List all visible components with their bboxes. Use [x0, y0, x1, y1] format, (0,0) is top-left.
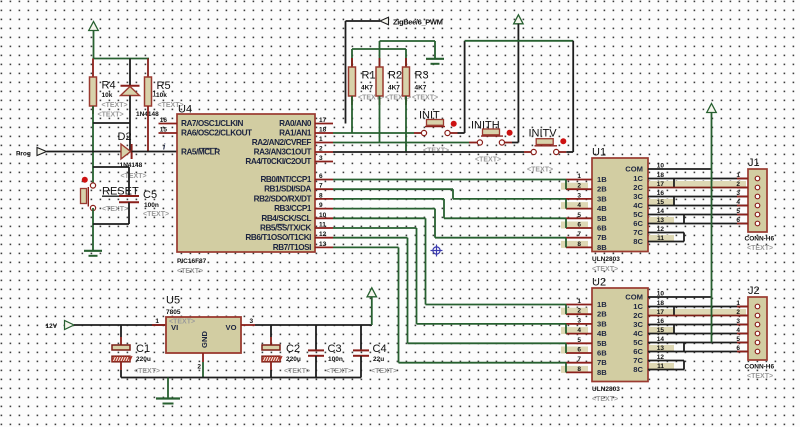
- U4 pin 16 RA7/OSC1/CLKIN: [159, 117, 244, 128]
- svg-text:<TEXT>: <TEXT>: [134, 368, 160, 375]
- capacitor C1 (220u): [112, 325, 160, 378]
- wire 12V to U5 VI: [74, 324, 166, 326]
- wire U2 3C-4C tie: [673, 325, 675, 334]
- IC U1 ULN2803 body: [592, 147, 648, 274]
- svg-text:220u: 220u: [286, 356, 301, 363]
- svg-text:8C: 8C: [633, 365, 643, 374]
- U4 pin 6 RB0/INT/CCP1: [260, 173, 333, 184]
- wire U1 COM to +V rail: [648, 168, 712, 170]
- wire U2 7C stub: [648, 360, 684, 362]
- power symbol +5V (top middle): [514, 15, 524, 143]
- svg-text:RB1/SDI/SDA: RB1/SDI/SDA: [264, 185, 311, 194]
- U4 pin 8 RB2/SDO/RX/DT: [254, 192, 333, 203]
- IC U4 PIC16F87 body: [177, 104, 315, 276]
- svg-text:2: 2: [736, 309, 740, 316]
- ground symbol (left): [84, 251, 102, 256]
- U2 pin 16 (3C): [633, 318, 664, 329]
- svg-text:<TEXT>: <TEXT>: [102, 102, 128, 109]
- wire U1 input pair 3B-4B tie: [565, 199, 567, 209]
- J2 pin 4: [736, 327, 759, 336]
- U1 pin 13 (6C): [633, 217, 674, 228]
- U1 pin 5 (5B): [566, 212, 607, 223]
- svg-text:RA3/AN3C1OUT: RA3/AN3C1OUT: [254, 148, 312, 157]
- wire U2 6C to J2 pin 6: [648, 351, 748, 353]
- svg-text:R1: R1: [362, 70, 376, 82]
- svg-text:10k: 10k: [156, 92, 167, 99]
- svg-text:<TEXT>: <TEXT>: [98, 112, 124, 119]
- wire R3 bottom to INITV row: [405, 96, 407, 152]
- svg-text:<TEXT>: <TEXT>: [121, 173, 147, 180]
- wire U1 3C-4C tie: [673, 197, 675, 206]
- wire U2 input pair 3B-4B tie: [565, 324, 567, 334]
- connector J1 CONN-H6 body: [745, 157, 775, 252]
- svg-text:2: 2: [577, 308, 581, 315]
- svg-text:<TEXT>: <TEXT>: [284, 368, 310, 375]
- svg-text:5C: 5C: [633, 210, 643, 219]
- svg-text:RB7/T1OSI: RB7/T1OSI: [273, 243, 311, 252]
- wire U2 input pair 7B-8B tie: [565, 363, 567, 373]
- svg-text:12V: 12V: [46, 323, 58, 330]
- capacitor C2 (220u): [262, 325, 310, 378]
- svg-text:RB0/INT/CCP1: RB0/INT/CCP1: [260, 175, 311, 184]
- svg-text:<TEXT>: <TEXT>: [592, 266, 618, 273]
- voltage regulator U5 7805: [155, 295, 253, 371]
- resistor R3 (4K7): [403, 49, 439, 105]
- U1 pin 14 (5C): [633, 208, 664, 219]
- svg-text:100n: 100n: [144, 202, 159, 209]
- U1 pin 16 (3C): [633, 190, 664, 201]
- svg-text:RA2/AN2/CVREF: RA2/AN2/CVREF: [252, 138, 312, 147]
- svg-text:ZigBee/6_PWM: ZigBee/6_PWM: [393, 18, 443, 27]
- svg-text:8B: 8B: [597, 368, 607, 377]
- svg-text:8: 8: [577, 241, 581, 248]
- pushbutton RESET: [81, 177, 140, 213]
- U1 pin 17 (2C): [633, 181, 674, 192]
- svg-text:CONN-H6: CONN-H6: [745, 236, 775, 243]
- svg-text:RA6/OSC2/CLKOUT: RA6/OSC2/CLKOUT: [181, 129, 252, 138]
- wire U2 COM to +V rail: [648, 296, 712, 298]
- svg-text:6: 6: [577, 222, 581, 229]
- pushbutton INITV: [524, 128, 566, 174]
- diode D1 (vertical, 1N4148): [121, 59, 160, 152]
- wire U1 1C-2C tie: [673, 179, 675, 188]
- svg-text:C3: C3: [328, 343, 342, 355]
- svg-text:3: 3: [736, 318, 740, 325]
- svg-text:3B: 3B: [597, 194, 607, 203]
- wire RB1 to U1 3B: [333, 189, 566, 199]
- wire U4 RA1 (18) to INIT: [333, 132, 414, 134]
- J1 pin 1: [736, 172, 759, 181]
- svg-text:7: 7: [319, 183, 323, 190]
- wire R4 bottom column: [92, 106, 94, 186]
- J1 pin 6: [736, 217, 759, 226]
- wire U2 7C-8C tie: [683, 361, 685, 370]
- wire C5 bottom rail: [93, 223, 129, 225]
- svg-text:<TEXT>: <TEXT>: [371, 368, 397, 375]
- svg-text:3B: 3B: [597, 319, 607, 328]
- wire U1 4C to J1 pin 4: [648, 205, 748, 207]
- U1 pin 12 (7C): [633, 226, 664, 237]
- svg-text:6: 6: [577, 347, 581, 354]
- J1 pin 3: [736, 190, 759, 199]
- svg-text:<TEXT>: <TEXT>: [326, 368, 352, 375]
- svg-text:ULN2803: ULN2803: [592, 386, 620, 393]
- svg-text:220u: 220u: [136, 356, 151, 363]
- U2 pin 3 (3B): [566, 317, 607, 328]
- svg-text:INITV: INITV: [529, 128, 558, 140]
- ground symbol (top middle): [426, 41, 444, 64]
- U1 pin 2 (2B): [561, 183, 607, 194]
- svg-text:<TEXT>: <TEXT>: [747, 373, 773, 380]
- capacitor C5 (100n): [119, 167, 169, 224]
- wire U2 1C-2C tie: [673, 307, 675, 316]
- power symbol +5V (top-left): [89, 22, 99, 59]
- wire U1 input pair 1B-2B tie: [565, 180, 567, 190]
- svg-text:ULN2803: ULN2803: [592, 256, 620, 263]
- wire U2 input pair 1B-2B tie: [565, 305, 567, 315]
- svg-text:3: 3: [319, 155, 323, 162]
- svg-text:5C: 5C: [633, 338, 643, 347]
- pushbutton INIT: [414, 110, 458, 155]
- svg-text:4: 4: [736, 327, 740, 334]
- wire U2 4C to J2 pin 4: [648, 333, 748, 335]
- 12V input terminal: [46, 321, 75, 331]
- connector J2 CONN-H6 body: [745, 285, 775, 380]
- U2 pin 4 (4B): [561, 327, 607, 338]
- svg-text:3C: 3C: [633, 320, 643, 329]
- svg-text:U4: U4: [178, 104, 192, 116]
- svg-text:5: 5: [736, 208, 740, 215]
- U4 pin 18 RA1/AN1: [279, 127, 333, 138]
- wire U1 7C stub: [648, 232, 684, 234]
- svg-text:15: 15: [160, 127, 168, 134]
- wire INITV to +5V vertical: [566, 41, 573, 152]
- svg-text:1: 1: [155, 318, 159, 325]
- svg-text:100n: 100n: [328, 356, 343, 363]
- U4 pin 9 RB3/CCP1: [274, 202, 333, 213]
- svg-text:RB6/T1OSO/T1CKI: RB6/T1OSO/T1CKI: [245, 233, 311, 242]
- wire +5V rail for switches: [465, 40, 574, 42]
- svg-text:RB4/SCK/SCL: RB4/SCK/SCL: [261, 214, 311, 223]
- svg-text:RA4/T0CKI/C2OUT: RA4/T0CKI/C2OUT: [245, 157, 311, 166]
- svg-text:10k: 10k: [102, 92, 113, 99]
- svg-text:1C: 1C: [633, 302, 643, 311]
- wire U2 2C to J2 pin 2: [648, 309, 748, 316]
- wire U1 5C to J1 pin 5: [648, 214, 748, 216]
- U2 pin 18 (1C): [633, 300, 664, 311]
- capacitor C3 (100n): [308, 325, 352, 378]
- svg-text:5: 5: [736, 336, 740, 343]
- svg-text:9: 9: [319, 202, 323, 209]
- wire U1 input pair 7B-8B tie: [565, 238, 567, 248]
- svg-text:RB3/CCP1: RB3/CCP1: [274, 204, 312, 213]
- wire top rail (R4/D1/R5 tops): [93, 58, 150, 60]
- svg-text:7C: 7C: [633, 228, 643, 237]
- U1 pin 3 (3B): [566, 192, 607, 203]
- U2 pin 11 (8C): [633, 363, 674, 374]
- svg-text:<TEXT>: <TEXT>: [747, 245, 773, 252]
- svg-text:2B: 2B: [597, 185, 607, 194]
- svg-text:J2: J2: [748, 285, 760, 297]
- svg-text:6: 6: [736, 345, 740, 352]
- svg-text:4: 4: [577, 202, 581, 209]
- wire U5 GND pin: [202, 353, 204, 378]
- wire C5 top rail: [93, 166, 129, 168]
- J2 pin 3: [736, 318, 759, 327]
- wire RB3 to U1 7B: [333, 209, 566, 238]
- svg-text:1N4148: 1N4148: [120, 162, 143, 169]
- svg-text:8: 8: [319, 192, 323, 199]
- svg-text:<TEXT>: <TEXT>: [143, 211, 169, 218]
- svg-text:VO: VO: [226, 323, 237, 332]
- svg-text:4: 4: [577, 327, 581, 334]
- wire U1 2C to J1 pin 2: [648, 181, 748, 188]
- wire U1 6C to J1 pin 6: [648, 223, 748, 225]
- svg-text:1: 1: [577, 173, 581, 180]
- svg-text:3: 3: [250, 318, 254, 325]
- U2 pin 2 (2B): [561, 308, 607, 319]
- U1 pin 18 (1C): [633, 172, 664, 183]
- svg-text:4K7: 4K7: [388, 85, 400, 92]
- wire U5 VO +5V rail: [241, 324, 372, 326]
- U4 pin 2 RA3/AN3C1OUT: [254, 146, 333, 157]
- svg-text:7C: 7C: [633, 356, 643, 365]
- svg-text:COM: COM: [625, 165, 643, 174]
- J2 pin 1: [736, 300, 759, 309]
- svg-text:1B: 1B: [597, 175, 607, 184]
- svg-text:U1: U1: [592, 147, 606, 159]
- wire U4 RA3 (2) to INITV: [333, 151, 524, 153]
- U2 pin 5 (5B): [566, 337, 607, 348]
- wire U2 1C to J2 pin 1: [648, 306, 748, 308]
- svg-text:J1: J1: [748, 157, 760, 169]
- U1 pin 6 (6B): [561, 222, 607, 233]
- svg-text:RA7/OSC1/CLKIN: RA7/OSC1/CLKIN: [181, 119, 243, 128]
- wire U2 3C to J2 pin 3: [648, 324, 748, 326]
- diode D2 (1N4148): [118, 131, 147, 180]
- J2 pin 5: [736, 336, 759, 345]
- wire U1 input pair 5B-6B tie: [565, 218, 567, 228]
- U2 pin 15 (4C): [633, 327, 674, 338]
- svg-text:R3: R3: [415, 70, 429, 82]
- wire RB7 to U2 7B: [333, 247, 566, 362]
- U1 pin 1 (1B): [566, 173, 607, 184]
- svg-text:8B: 8B: [597, 243, 607, 252]
- U2 pin 8 (8B): [561, 366, 607, 377]
- svg-text:1: 1: [736, 172, 740, 179]
- svg-text:7805: 7805: [166, 309, 181, 316]
- svg-text:1C: 1C: [633, 174, 643, 183]
- svg-text:7B: 7B: [597, 233, 607, 242]
- wire U2 input pair 5B-6B tie: [565, 343, 567, 353]
- U4 pin 3 RA4/T0CKI/C2OUT: [245, 155, 333, 166]
- origin marker crosshair: [431, 245, 443, 257]
- svg-text:R4: R4: [102, 80, 116, 92]
- svg-text:D2: D2: [118, 131, 132, 143]
- U4 pin 10 RB4/SCK/SCL: [261, 212, 333, 223]
- svg-text:4B: 4B: [597, 204, 607, 213]
- svg-text:<TEXT>: <TEXT>: [102, 206, 128, 213]
- svg-text:6B: 6B: [597, 224, 607, 233]
- svg-text:13: 13: [319, 241, 327, 248]
- wire D2 cathode to U4 RA5/MCLR: [132, 151, 177, 153]
- U4 pin 7 RB1/SDI/SDA: [264, 183, 333, 194]
- IC U2 ULN2803 body: [592, 277, 648, 404]
- U2 pin 14 (5C): [633, 336, 664, 347]
- svg-text:<TEXT>: <TEXT>: [527, 167, 553, 174]
- wire rail R1-R3 tops: [352, 48, 406, 50]
- svg-text:11: 11: [319, 222, 326, 229]
- U1 pin 15 (4C): [633, 199, 674, 210]
- U2 pin 10 (COM): [625, 291, 664, 302]
- svg-text:RB2/SDO/RX/DT: RB2/SDO/RX/DT: [254, 194, 312, 203]
- wire U4 RA2 (1) to INITH: [333, 142, 469, 144]
- wire U1 5C-6C tie: [683, 215, 685, 224]
- svg-text:3: 3: [736, 190, 740, 197]
- svg-text:RA1/AN1: RA1/AN1: [279, 129, 312, 138]
- svg-text:1: 1: [577, 298, 581, 305]
- resistor R1 (4K7): [349, 49, 385, 105]
- wire Prog to D2 anode: [47, 151, 122, 153]
- wire U1 8C stub: [648, 241, 684, 243]
- svg-text:6: 6: [736, 217, 740, 224]
- svg-text:<TEXT>: <TEXT>: [177, 268, 203, 275]
- U1 pin 7 (7B): [566, 231, 607, 242]
- svg-text:3: 3: [577, 192, 581, 199]
- svg-text:GND: GND: [200, 331, 209, 348]
- wire RESET bottom to ground rail: [92, 208, 94, 251]
- U2 pin 17 (2C): [633, 309, 674, 320]
- svg-text:8: 8: [577, 366, 581, 373]
- wire U1 3C to J1 pin 3: [648, 196, 748, 198]
- U2 pin 13 (6C): [633, 345, 674, 356]
- svg-text:16: 16: [160, 117, 168, 124]
- svg-text:COM: COM: [625, 293, 643, 302]
- svg-text:1: 1: [736, 300, 740, 307]
- svg-text:1B: 1B: [597, 300, 607, 309]
- U4 pin 1 RA2/AN2/CVREF: [252, 136, 333, 147]
- U2 pin 7 (7B): [566, 356, 607, 367]
- svg-text:R5: R5: [157, 80, 171, 92]
- svg-text:4C: 4C: [633, 329, 643, 338]
- wire U1 7C-8C tie: [683, 233, 685, 242]
- svg-text:4: 4: [736, 199, 740, 206]
- U4 pin 11 RB5/SS/TX/CK: [260, 222, 333, 233]
- U1 pin 4 (4B): [561, 202, 607, 213]
- svg-text:<TEXT>: <TEXT>: [475, 157, 501, 164]
- resistor R4: [90, 59, 128, 119]
- svg-text:C2: C2: [286, 343, 300, 355]
- U2 pin 1 (1B): [566, 298, 607, 309]
- U2 pin 12 (7C): [633, 354, 664, 365]
- U4 pin 12 RB6/T1OSO/T1CKI: [245, 231, 333, 242]
- svg-text:8C: 8C: [633, 237, 643, 246]
- svg-text:6B: 6B: [597, 349, 607, 358]
- svg-text:2B: 2B: [597, 310, 607, 319]
- capacitor C4 (22u): [353, 325, 397, 378]
- U1 pin 10 (COM): [625, 163, 664, 174]
- wire U2 5C-6C tie: [683, 343, 685, 352]
- svg-text:18: 18: [319, 127, 327, 134]
- svg-text:CONN-H6: CONN-H6: [745, 364, 775, 371]
- J1 pin 4: [736, 199, 759, 208]
- svg-text:2: 2: [319, 146, 323, 153]
- svg-text:2C: 2C: [633, 311, 643, 320]
- svg-text:C1: C1: [136, 343, 150, 355]
- U4 pin 4 RA5/MCLR: [163, 143, 220, 157]
- ground symbol (bottom): [156, 378, 180, 404]
- power symbol +V (right): [707, 104, 717, 343]
- svg-text:RB5/SS/TX/CK: RB5/SS/TX/CK: [260, 224, 312, 233]
- wire RB5 to U2 3B: [333, 228, 566, 324]
- svg-text:4K7: 4K7: [361, 85, 373, 92]
- U4 pin 17 RA0/AN0: [279, 117, 333, 128]
- J2 pin 2: [736, 309, 759, 318]
- svg-text:PIC16F87: PIC16F87: [177, 258, 207, 265]
- J2 pin 6: [736, 345, 759, 354]
- U2 pin 6 (6B): [561, 347, 607, 358]
- power symbol +5V (above U5 output): [367, 288, 377, 325]
- svg-text:5B: 5B: [597, 339, 607, 348]
- wire U2 8C stub: [648, 369, 684, 371]
- svg-text:RA0/AN0: RA0/AN0: [279, 119, 312, 128]
- svg-text:10: 10: [319, 212, 327, 219]
- svg-text:6: 6: [319, 173, 323, 180]
- svg-text:4B: 4B: [597, 329, 607, 338]
- svg-text:C5: C5: [143, 189, 157, 201]
- svg-text:7: 7: [577, 231, 581, 238]
- svg-text:<TEXT>: <TEXT>: [592, 396, 618, 403]
- Prog input terminal: [16, 148, 47, 158]
- svg-text:3: 3: [577, 317, 581, 324]
- svg-text:2C: 2C: [633, 183, 643, 192]
- svg-text:4K7: 4K7: [415, 85, 427, 92]
- wire U2 5C to J2 pin 5: [648, 342, 748, 344]
- svg-text:Prog: Prog: [16, 151, 31, 158]
- svg-text:2: 2: [736, 181, 740, 188]
- U1 pin 11 (8C): [633, 235, 674, 246]
- svg-text:<TEXT>: <TEXT>: [423, 148, 449, 155]
- svg-text:C4: C4: [373, 343, 387, 355]
- svg-text:2: 2: [577, 183, 581, 190]
- wire RB4 to U2 1B: [333, 218, 566, 304]
- wire U1 1C to J1 pin 1: [648, 178, 748, 180]
- svg-text:RA5/MCLR: RA5/MCLR: [181, 148, 220, 157]
- resistor R5: [145, 59, 184, 152]
- svg-text:12: 12: [319, 231, 327, 238]
- svg-text:U2: U2: [592, 277, 606, 289]
- wire R2 bottom to INITH row: [379, 96, 381, 143]
- svg-text:4C: 4C: [633, 201, 643, 210]
- svg-text:VI: VI: [171, 323, 178, 332]
- svg-text:6C: 6C: [633, 219, 643, 228]
- wire ground rail (bottom): [121, 377, 361, 379]
- svg-text:6C: 6C: [633, 347, 643, 356]
- wire rail R2 top to ground: [380, 40, 436, 42]
- U4 pin 15 RA6/OSC2/CLKOUT: [159, 127, 253, 138]
- J1 pin 5: [736, 208, 759, 217]
- wire INITH to +5V vertical: [512, 142, 518, 144]
- pushbutton INITH: [469, 120, 513, 164]
- svg-text:5: 5: [577, 212, 581, 219]
- wire RB0 to U1 1B: [333, 179, 566, 181]
- svg-text:7: 7: [577, 356, 581, 363]
- svg-text:U5: U5: [166, 295, 180, 307]
- J1 pin 2: [736, 181, 759, 190]
- wire ZigBee tag to U4 RA0 (pin 17): [345, 21, 347, 124]
- wire RB6 to U2 5B: [333, 238, 566, 344]
- svg-text:1: 1: [319, 136, 323, 143]
